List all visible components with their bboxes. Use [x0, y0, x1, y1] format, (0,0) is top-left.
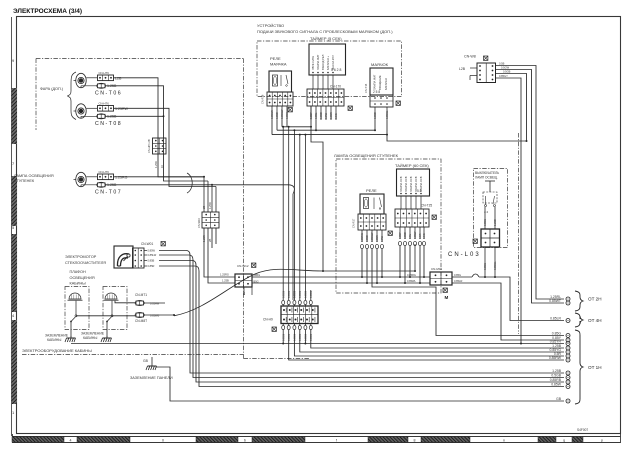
svg-text:0.85W: 0.85W	[413, 231, 417, 239]
svg-text:СТУПЕНЕК: СТУПЕНЕК	[14, 179, 35, 183]
svg-text:0.5GW: 0.5GW	[501, 66, 510, 70]
svg-text:1.25RW: 1.25RW	[115, 107, 129, 111]
svg-text:0.85L: 0.85L	[314, 112, 318, 119]
svg-text:CN-HP1 2B: CN-HP1 2B	[147, 139, 151, 153]
svg-text:8: 8	[414, 439, 416, 443]
svg-text:0.85G: 0.85G	[298, 291, 302, 298]
svg-text:0.85RG: 0.85RG	[360, 233, 364, 242]
svg-text:0.85GW: 0.85GW	[280, 109, 284, 119]
svg-text:ТАЙМЕР (60 СЕК): ТАЙМЕР (60 СЕК)	[395, 163, 429, 168]
svg-text:GB: GB	[556, 397, 562, 401]
svg-text:0.5G: 0.5G	[422, 233, 426, 239]
svg-text:ОТ 4Н: ОТ 4Н	[588, 318, 602, 323]
svg-text:0.85R: 0.85R	[148, 264, 155, 268]
svg-text:0.85G: 0.85G	[293, 291, 297, 298]
svg-text:CN-MT1: CN-MT1	[135, 293, 147, 297]
svg-text:ОТ 1Н: ОТ 1Н	[588, 365, 602, 370]
svg-text:0.85G: 0.85G	[304, 291, 308, 298]
svg-text:МАЯЧКА: МАЯЧКА	[270, 62, 287, 67]
svg-text:0.85G: 0.85G	[285, 112, 289, 119]
svg-text:L2B: L2B	[459, 67, 466, 71]
svg-text:0.85B: 0.85B	[275, 112, 279, 119]
svg-text:КАБИНЫ: КАБИНЫ	[70, 282, 87, 286]
svg-text:РЕЛЕ: РЕЛЕ	[270, 56, 281, 61]
svg-text:ЗАЗЕМЛЕНИЕ: ЗАЗЕМЛЕНИЕ	[81, 332, 105, 336]
svg-text:РЕЛЕ: РЕЛЕ	[366, 188, 377, 193]
svg-text:0.85R: 0.85R	[375, 235, 379, 242]
svg-text:0.85Y: 0.85Y	[398, 232, 402, 239]
svg-text:0.85G: 0.85G	[552, 332, 562, 336]
svg-text:1.25B: 1.25B	[552, 369, 562, 373]
svg-text:0.85LR: 0.85LR	[454, 279, 462, 283]
svg-text:ЛАМП ОСВЕЩ.: ЛАМП ОСВЕЩ.	[475, 176, 498, 180]
svg-text:0.5GB: 0.5GB	[503, 70, 511, 74]
svg-text:4: 4	[70, 439, 72, 443]
svg-text:0.85GL: 0.85GL	[493, 261, 497, 270]
svg-text:ЛАМПА МИГ: ЛАМПА МИГ	[373, 74, 377, 90]
svg-text:S4F007: S4F007	[577, 428, 588, 432]
svg-text:1.25R: 1.25R	[208, 202, 212, 209]
svg-text:ЗВУК.СИГН: ЗВУК.СИГН	[311, 56, 315, 70]
svg-text:0.85RB: 0.85RB	[550, 378, 562, 382]
svg-text:CN-W10: CN-W10	[197, 217, 201, 228]
svg-text:0.85G: 0.85G	[483, 219, 487, 226]
svg-text:CN-Y15: CN-Y15	[364, 83, 368, 93]
svg-text:0.85RG: 0.85RG	[407, 273, 416, 277]
svg-text:ЛАМПА МИГ: ЛАМПА МИГ	[316, 54, 320, 70]
svg-text:CN-HT6: CN-HT6	[99, 170, 110, 174]
svg-text:1.25RG: 1.25RG	[115, 175, 128, 179]
svg-text:ПЛАФОН: ПЛАФОН	[70, 270, 86, 274]
svg-text:0.85B: 0.85B	[373, 112, 377, 119]
svg-text:ОТ 2Н: ОТ 2Н	[588, 297, 602, 302]
svg-text:0.85RW: 0.85RW	[549, 356, 562, 360]
svg-text:n: n	[503, 439, 505, 443]
svg-text:CN-T08: CN-T08	[95, 121, 122, 127]
svg-text:CN-R16: CN-R16	[261, 94, 265, 104]
svg-text:ТАЙМЕР (5 СЕК): ТАЙМЕР (5 СЕК)	[310, 36, 342, 41]
svg-text:CN-T06: CN-T06	[95, 91, 122, 97]
svg-text:0.5W: 0.5W	[380, 235, 384, 242]
svg-text:0.85G: 0.85G	[281, 291, 285, 298]
svg-text:0.5G: 0.5G	[334, 113, 338, 119]
svg-text:0.85WT: 0.85WT	[549, 299, 561, 303]
svg-text:0: 0	[162, 439, 164, 443]
svg-text:0.85LW: 0.85LW	[148, 253, 157, 257]
svg-text:УСТРОЙСТВО: УСТРОЙСТВО	[257, 23, 284, 28]
svg-text:2B: 2B	[242, 292, 246, 295]
svg-text:0.85W: 0.85W	[551, 383, 562, 387]
svg-text:1.25R: 1.25R	[154, 161, 158, 168]
svg-text:CN-M8T: CN-M8T	[135, 319, 147, 323]
svg-text:ЛАМПА ОСВ: ЛАМПА ОСВ	[399, 176, 403, 192]
svg-text:b: b	[244, 439, 246, 443]
svg-text:1.25B: 1.25B	[222, 279, 229, 283]
svg-text:0.85B: 0.85B	[403, 232, 407, 239]
svg-text:CN-HT6: CN-HT6	[99, 101, 110, 105]
svg-text:2B: 2B	[202, 206, 206, 209]
svg-text:1.25B: 1.25B	[493, 219, 497, 226]
svg-text:ЭЛЕКТРОСХЕМА (3/4): ЭЛЕКТРОСХЕМА (3/4)	[13, 8, 82, 15]
svg-text:0.85G: 0.85G	[483, 263, 487, 270]
svg-text:ОСВЕЩЕНИЯ: ОСВЕЩЕНИЯ	[70, 276, 95, 280]
svg-text:БАТАРЕЯ: БАТАРЕЯ	[384, 78, 388, 90]
svg-text:L2B: L2B	[115, 76, 122, 80]
svg-text:0.85G: 0.85G	[298, 334, 302, 341]
svg-text:0.85G: 0.85G	[281, 334, 285, 341]
svg-text:CN-W12: CN-W12	[237, 264, 249, 268]
svg-text:2 5 8: 2 5 8	[373, 90, 380, 94]
svg-text:КАБИНЫ: КАБИНЫ	[47, 338, 61, 342]
svg-text:CN-HT6: CN-HT6	[99, 71, 110, 75]
svg-text:CN-R17: CN-R17	[352, 218, 356, 228]
svg-text:0.85GL: 0.85GL	[385, 110, 389, 119]
svg-text:CN-M01: CN-M01	[431, 267, 442, 271]
svg-text:ЛАМПА ОСВЕЩЕНИЯ СТУПЕНЕК: ЛАМПА ОСВЕЩЕНИЯ СТУПЕНЕК	[334, 153, 399, 158]
svg-text:0.85B: 0.85B	[148, 259, 155, 263]
svg-text:5 6 2 8: 5 6 2 8	[331, 68, 341, 72]
svg-text:ВЫХОД РЕЛ: ВЫХОД РЕЛ	[321, 54, 325, 70]
svg-text:ФАРА (ДОП.): ФАРА (ДОП.)	[40, 87, 64, 91]
svg-text:CN-L03: CN-L03	[448, 252, 481, 258]
svg-text:ЭЛЕКТРОМОТОР: ЭЛЕКТРОМОТОР	[65, 255, 97, 259]
svg-text:ЛАМПА ОСВ: ЛАМПА ОСВ	[404, 176, 408, 192]
svg-text:0.85WL: 0.85WL	[407, 279, 416, 283]
svg-text:GB: GB	[143, 359, 149, 363]
svg-text:CN-170: CN-170	[330, 85, 341, 89]
svg-text:ЛАМПА ОСВЕЩЕНИЯ: ЛАМПА ОСВЕЩЕНИЯ	[14, 174, 54, 178]
svg-text:КАБИНЫ: КАБИНЫ	[83, 336, 97, 340]
svg-text:ЛАМПА ОСВ: ЛАМПА ОСВ	[409, 176, 413, 192]
svg-text:0.5L: 0.5L	[408, 233, 412, 239]
svg-text:ВЫКЛЮЧАТЕЛЬ: ВЫКЛЮЧАТЕЛЬ	[475, 171, 499, 175]
svg-text:0.5R: 0.5R	[418, 233, 422, 239]
svg-text:БАТАРЕЯ +: БАТАРЕЯ +	[326, 56, 330, 70]
svg-text:0.5B: 0.5B	[499, 62, 505, 66]
svg-text:0.85B: 0.85B	[365, 235, 369, 242]
svg-text:0.85G: 0.85G	[454, 273, 461, 277]
svg-text:0.85G: 0.85G	[304, 334, 308, 341]
svg-text:МАЯЧОК: МАЯЧОК	[371, 62, 389, 67]
svg-text:0.85GY: 0.85GY	[499, 74, 508, 78]
svg-text:CN-H9: CN-H9	[263, 318, 273, 322]
svg-text:ЗАЗЕМЛЕНИЕ: ЗАЗЕМЛЕНИЕ	[45, 334, 69, 338]
svg-text:0.5W: 0.5W	[324, 112, 328, 119]
svg-text:CN-W8: CN-W8	[464, 55, 476, 59]
svg-text:ЭЛЕКТРООБОРУДОВАНИЕ КАБИНЫ: ЭЛЕКТРООБОРУДОВАНИЕ КАБИНЫ	[22, 348, 92, 353]
svg-text:ЗАЗЕМЛЕНИЕ ПАНЕЛИ: ЗАЗЕМЛЕНИЕ ПАНЕЛИ	[130, 376, 173, 380]
svg-text:0.5GB: 0.5GB	[551, 374, 561, 378]
svg-text:0.85YR: 0.85YR	[550, 340, 562, 344]
svg-text:ПОДАЧИ ЗВУКОВОГО СИГНАЛА С ПРО: ПОДАЧИ ЗВУКОВОГО СИГНАЛА С ПРОБЛЕСКОВЫМ …	[257, 29, 393, 34]
svg-text:5 8: 5 8	[417, 189, 422, 193]
svg-text:0.85G: 0.85G	[287, 291, 291, 298]
svg-text:M: M	[445, 295, 449, 300]
svg-text:0.85LR: 0.85LR	[550, 317, 561, 321]
svg-text:0.85G: 0.85G	[293, 334, 297, 341]
svg-text:0.85GW: 0.85GW	[370, 232, 374, 242]
svg-text:CN-T25: CN-T25	[421, 204, 432, 208]
svg-text:СТЕКЛООЧИСТИТЕЛЯ: СТЕКЛООЧИСТИТЕЛЯ	[65, 261, 106, 265]
svg-text:q: q	[563, 439, 565, 443]
svg-text:0.85B: 0.85B	[319, 112, 323, 119]
svg-text:f: f	[336, 439, 337, 443]
svg-text:p: p	[601, 439, 603, 443]
svg-text:CN-W01: CN-W01	[141, 242, 153, 246]
svg-text:ВРАЩЕНИЕ: ВРАЩЕНИЕ	[378, 75, 382, 90]
svg-text:1.25RG: 1.25RG	[220, 273, 229, 277]
svg-text:0.85R: 0.85R	[329, 112, 333, 119]
svg-text:0.85G: 0.85G	[287, 334, 291, 341]
svg-text:2B: 2B	[208, 239, 212, 242]
svg-text:0.85G: 0.85G	[309, 334, 313, 341]
svg-text:CN-T07: CN-T07	[95, 190, 122, 196]
svg-text:0.85W: 0.85W	[148, 249, 156, 253]
svg-text:0.85GR: 0.85GR	[270, 110, 274, 119]
